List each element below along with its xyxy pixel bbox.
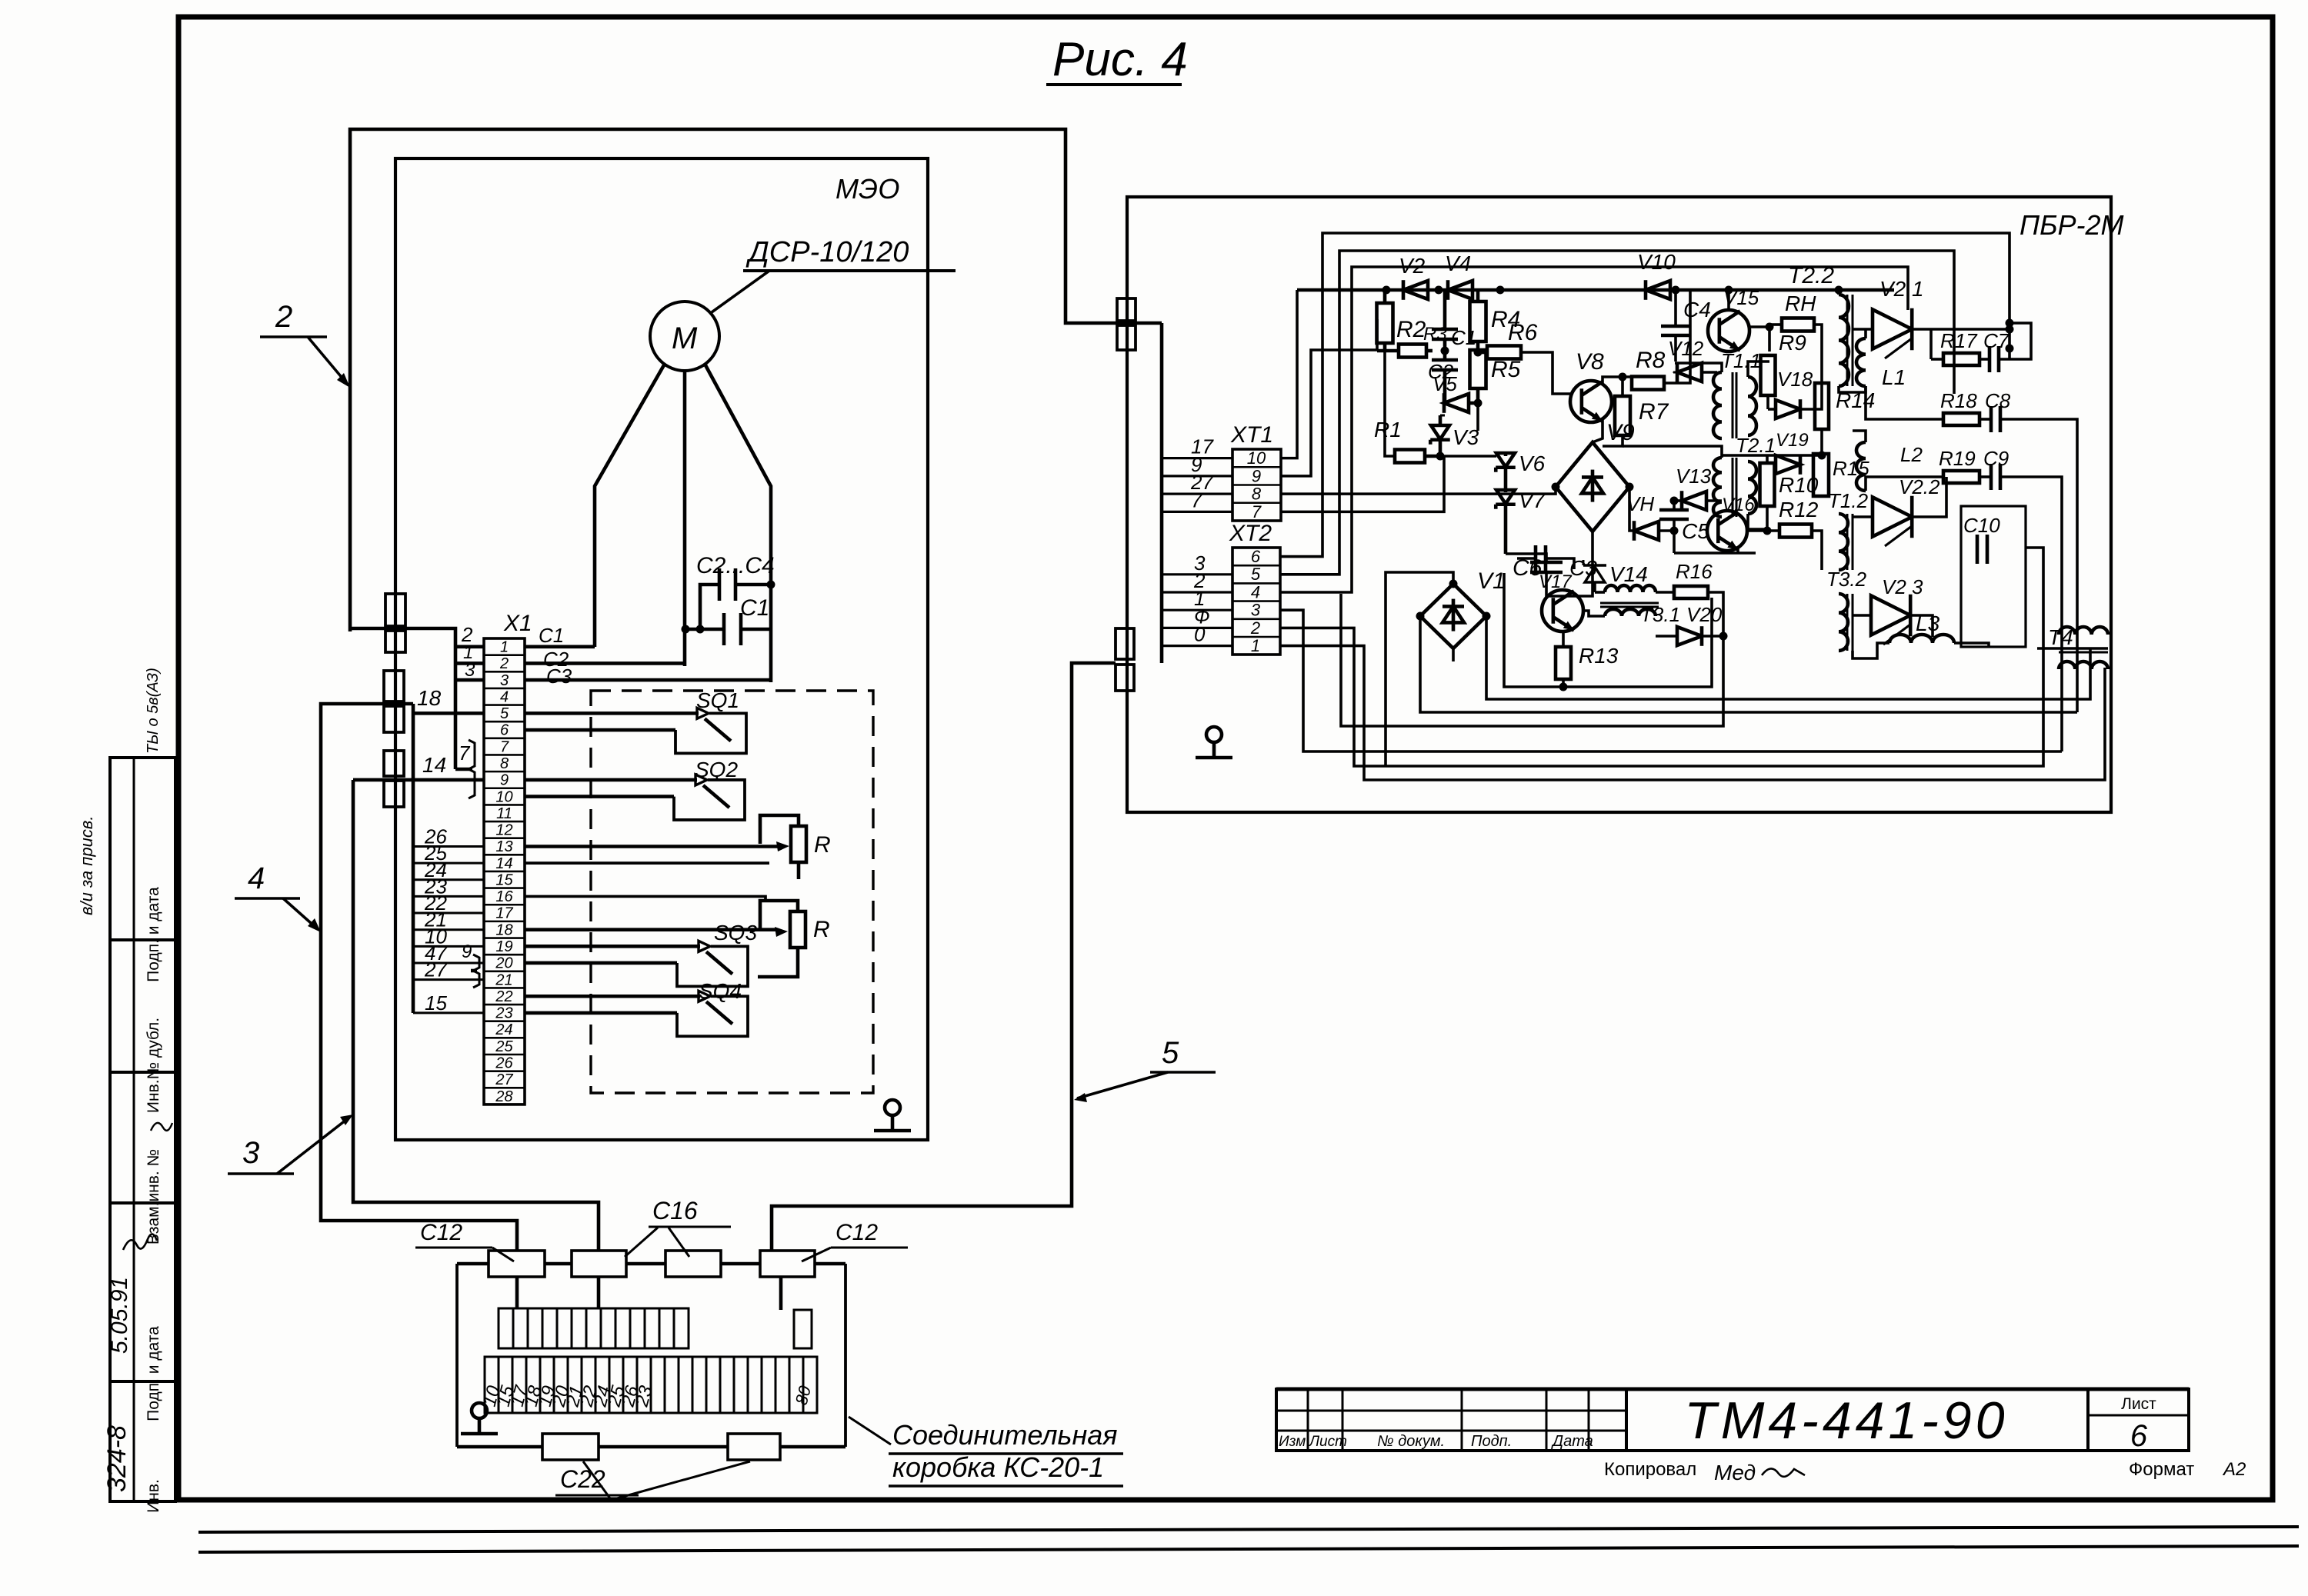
resistor R2 <box>1377 303 1393 343</box>
resistor R3 <box>1399 345 1426 358</box>
svg-text:SQ1: SQ1 <box>696 688 739 712</box>
capacitor C3 <box>1530 561 1563 565</box>
resistor R11 <box>1782 318 1814 332</box>
svg-text:10: 10 <box>495 788 512 805</box>
motor lead wires <box>595 364 665 647</box>
cable 5 wire <box>772 663 1116 1251</box>
MEO box <box>395 158 928 1140</box>
diode V13 <box>1682 491 1706 510</box>
svg-text:V3: V3 <box>1453 425 1479 449</box>
svg-text:в/и за присв.: в/и за присв. <box>77 816 96 915</box>
svg-text:5: 5 <box>500 705 509 722</box>
svg-text:12: 12 <box>495 822 512 839</box>
svg-text:15: 15 <box>425 991 447 1015</box>
svg-text:Инв.№ дубл.: Инв.№ дубл. <box>145 1018 162 1113</box>
resistor R5 <box>1470 350 1486 388</box>
svg-text:R16: R16 <box>1676 560 1713 583</box>
svg-text:5: 5 <box>1251 565 1261 584</box>
svg-text:7: 7 <box>459 741 471 765</box>
diode V19 <box>1776 455 1800 474</box>
capacitor C1 pbr <box>1432 328 1458 332</box>
svg-text:13: 13 <box>495 838 512 855</box>
svg-text:9: 9 <box>500 772 509 789</box>
svg-text:С1: С1 <box>539 624 564 647</box>
svg-text:324-8: 324-8 <box>102 1425 132 1492</box>
svg-text:7: 7 <box>1252 502 1262 521</box>
resistor R6 <box>1487 346 1521 359</box>
X1 left wires 2 1 3 <box>350 628 455 769</box>
svg-text:3: 3 <box>500 672 509 689</box>
X1 ladder bus wires <box>412 704 415 1013</box>
svg-text:24: 24 <box>495 1021 512 1038</box>
svg-text:С5: С5 <box>1682 519 1709 543</box>
stamp signature scribbles <box>123 1234 157 1250</box>
top bus wire <box>1297 288 1894 292</box>
potentiometer R upper <box>791 826 806 862</box>
svg-text:L3: L3 <box>1916 611 1940 635</box>
svg-text:С10: С10 <box>1963 514 2000 537</box>
svg-text:ДСР-10/120: ДСР-10/120 <box>745 236 909 268</box>
svg-text:V8: V8 <box>1576 349 1604 375</box>
svg-text:коробка КС-20-1: коробка КС-20-1 <box>892 1451 1104 1483</box>
diode V10 <box>1646 281 1670 299</box>
diode V2 <box>1403 281 1428 299</box>
group bracket pins 6-8 <box>455 768 472 771</box>
svg-text:R9: R9 <box>1779 331 1806 355</box>
svg-text:Дата: Дата <box>1551 1433 1593 1450</box>
fuse stub wires <box>515 1277 519 1308</box>
svg-text:ТМ4-441-90: ТМ4-441-90 <box>1684 1391 2008 1450</box>
svg-text:8: 8 <box>1252 485 1262 504</box>
svg-text:6: 6 <box>2130 1419 2148 1453</box>
svg-text:Инв.: Инв. <box>145 1479 162 1513</box>
wire loop XT1.8 long to bridge V9 <box>1281 487 1556 494</box>
winding T3.1 upper <box>1605 585 1656 592</box>
zener V6 <box>1496 453 1515 467</box>
junction row mid <box>1722 454 1822 457</box>
svg-text:R: R <box>813 917 830 942</box>
svg-text:R10: R10 <box>1779 473 1819 497</box>
diode V11 <box>1634 521 1659 540</box>
svg-text:С7: С7 <box>1983 329 2010 352</box>
svg-text:L2: L2 <box>1900 443 1923 466</box>
transistor V15 <box>1708 310 1749 352</box>
V16 bottom rail <box>1674 551 1756 555</box>
svg-text:26: 26 <box>495 1055 513 1072</box>
diode V18 <box>1776 400 1800 418</box>
svg-text:M: M <box>672 322 698 355</box>
svg-text:V6: V6 <box>1519 451 1546 475</box>
svg-text:Лист: Лист <box>1308 1434 1347 1450</box>
svg-text:6: 6 <box>1251 547 1261 566</box>
svg-text:3: 3 <box>1251 601 1261 620</box>
terminal strip upper row <box>499 1308 513 1348</box>
svg-text:R5: R5 <box>1491 357 1521 382</box>
terminal strip lower row <box>485 1357 499 1413</box>
cable 5 bus inside PBR <box>1160 323 1164 663</box>
wires around bottom of PBR <box>1486 616 2090 699</box>
svg-text:4: 4 <box>500 688 509 705</box>
svg-text:R2: R2 <box>1396 317 1426 342</box>
choke L1 <box>1856 338 1866 386</box>
svg-text:Т2.2: Т2.2 <box>1788 263 1834 288</box>
svg-text:4: 4 <box>1251 582 1260 601</box>
svg-text:R17: R17 <box>1940 329 1978 352</box>
diode V3 zener <box>1431 425 1449 439</box>
svg-text:21: 21 <box>495 971 512 988</box>
svg-text:R: R <box>814 832 831 858</box>
terminal strip X1 <box>484 638 525 1105</box>
svg-text:R1: R1 <box>1374 418 1402 441</box>
svg-text:R6: R6 <box>1508 320 1538 345</box>
thyristor V2.3 <box>1871 595 1910 635</box>
svg-text:17: 17 <box>495 905 513 922</box>
bridge V9 <box>1556 442 1629 531</box>
svg-text:Т1.2: Т1.2 <box>1828 489 1869 512</box>
svg-text:С8: С8 <box>1985 389 2011 412</box>
svg-text:1: 1 <box>500 639 509 656</box>
connector contacts on MEO wall <box>385 594 405 626</box>
connector contacts on PBR wall upper <box>1117 298 1136 321</box>
svg-text:V16: V16 <box>1722 495 1755 515</box>
svg-text:С12: С12 <box>835 1220 878 1245</box>
svg-text:15: 15 <box>495 871 513 888</box>
resistor R1 <box>1395 450 1425 463</box>
svg-text:5: 5 <box>1162 1036 1179 1070</box>
connector contacts on PBR wall lower <box>1116 628 1134 659</box>
svg-text:Т3.1: Т3.1 <box>1640 603 1680 626</box>
left stamp column <box>110 758 175 1501</box>
svg-text:7: 7 <box>500 738 509 755</box>
svg-text:V12: V12 <box>1668 337 1704 360</box>
board box around pulse circuit <box>1504 573 1712 687</box>
zener V7 <box>1496 490 1515 504</box>
svg-text:19: 19 <box>495 938 512 955</box>
resistor R4 <box>1470 302 1486 342</box>
svg-text:Т3.2: Т3.2 <box>1826 568 1867 591</box>
svg-text:С16: С16 <box>652 1197 698 1224</box>
svg-text:R18: R18 <box>1940 389 1977 412</box>
wire loop XT2.4 over top <box>1280 267 1908 592</box>
svg-text:7: 7 <box>1191 488 1203 511</box>
svg-text:R15: R15 <box>1833 457 1869 480</box>
svg-text:V4: V4 <box>1445 252 1471 275</box>
capacitor C6 <box>1534 545 1538 571</box>
wire loop XT1.10 to top bus <box>1281 290 1297 458</box>
winding T2.1 <box>1713 458 1722 517</box>
svg-text:V20: V20 <box>1686 603 1723 626</box>
svg-text:V19: V19 <box>1776 430 1809 451</box>
svg-text:ПБР-2М: ПБР-2М <box>2019 209 2124 241</box>
svg-text:R8: R8 <box>1636 348 1666 373</box>
diode V4 <box>1448 281 1473 299</box>
wire loop XT1.9 <box>1281 350 1377 476</box>
svg-text:МЭО: МЭО <box>835 173 899 205</box>
MEO ground <box>885 1100 900 1115</box>
svg-text:V7: V7 <box>1519 488 1546 512</box>
wire loop XT1.7 to R1 junction <box>1281 456 1444 511</box>
XT2 left stub wires <box>1162 573 1232 575</box>
svg-text:SQ3: SQ3 <box>714 921 757 945</box>
svg-text:Взам.инв. №: Взам.инв. № <box>145 1149 162 1244</box>
svg-text:Мед: Мед <box>1714 1461 1756 1484</box>
wire loop XT2.1 bottom <box>1280 646 2105 780</box>
svg-text:А2: А2 <box>2222 1459 2246 1480</box>
junction box KS-20-1 <box>457 1262 489 1266</box>
svg-text:V10: V10 <box>1637 250 1676 274</box>
choke L3 <box>1889 635 1954 643</box>
svg-text:V2.1: V2.1 <box>1879 277 1924 301</box>
choke L2 <box>1856 442 1866 491</box>
transistor V8 <box>1570 381 1612 422</box>
svg-text:R12: R12 <box>1779 498 1819 521</box>
svg-text:Х1: Х1 <box>503 611 532 636</box>
junction box ground <box>472 1403 487 1418</box>
sheet bottom edge lines <box>198 1527 2299 1532</box>
svg-text:ТЫ о 5в(АЗ): ТЫ о 5в(АЗ) <box>145 668 162 754</box>
resistor R7 <box>1615 396 1630 435</box>
svg-text:Лист: Лист <box>2121 1395 2156 1413</box>
cable 2 outer loop wire <box>350 129 1162 631</box>
transistor V16 <box>1707 511 1747 551</box>
svg-text:V18: V18 <box>1777 368 1813 391</box>
winding T3.1 lower <box>1605 609 1656 616</box>
capacitor C2 pbr <box>1432 358 1458 362</box>
resistor R12 <box>1779 525 1812 538</box>
svg-text:Подп.: Подп. <box>1471 1433 1512 1450</box>
motor M DSR-10/120 <box>650 302 719 371</box>
document number TM4-441-90 <box>1626 1389 2088 1451</box>
svg-text:14: 14 <box>495 855 512 872</box>
terminal block XT1 <box>1232 449 1281 521</box>
svg-text:2: 2 <box>1250 618 1260 638</box>
svg-text:R13: R13 <box>1579 644 1619 668</box>
svg-text:ХТ2: ХТ2 <box>1229 521 1272 546</box>
wire loop XT2.2 bottom <box>1280 548 2043 766</box>
resistor R15 <box>1813 454 1829 496</box>
XT1 left stub wires <box>1162 457 1232 459</box>
svg-text:11: 11 <box>496 805 512 822</box>
svg-text:V2.2: V2.2 <box>1899 475 1940 498</box>
svg-text:18: 18 <box>417 686 442 710</box>
ladder wires 26 25 24 23 22 21 10 47 27 15 <box>413 845 484 848</box>
svg-text:Копировал: Копировал <box>1604 1459 1696 1480</box>
wire loop XT2.6 over top <box>1280 233 2009 557</box>
svg-text:L1: L1 <box>1882 365 1906 389</box>
cable 4 wire <box>321 704 517 1251</box>
svg-text:27: 27 <box>424 958 448 981</box>
svg-text:Формат: Формат <box>2129 1459 2194 1480</box>
svg-text:С9: С9 <box>1983 447 2009 470</box>
svg-text:С3: С3 <box>546 665 572 688</box>
svg-text:3: 3 <box>242 1136 259 1170</box>
svg-text:28: 28 <box>495 1088 512 1105</box>
resistor R16 <box>1674 586 1708 598</box>
svg-text:RН: RН <box>1785 292 1816 315</box>
svg-text:Подп. и дата: Подп. и дата <box>145 1326 162 1421</box>
resistor R8 <box>1632 377 1664 390</box>
svg-text:14: 14 <box>422 753 446 777</box>
svg-text:16: 16 <box>495 888 513 905</box>
resistor R14 <box>1815 383 1829 429</box>
wire loop XT2.3 bottom <box>1280 610 2062 751</box>
svg-text:23: 23 <box>495 1005 512 1022</box>
svg-text:9: 9 <box>1252 466 1261 485</box>
svg-text:С22: С22 <box>560 1465 605 1493</box>
winding T1.1 <box>1713 372 1722 438</box>
capacitor C4 <box>1661 325 1690 328</box>
svg-text:1: 1 <box>1251 636 1260 655</box>
svg-text:С1: С1 <box>1451 326 1476 349</box>
terminal block XT2 <box>1232 548 1280 655</box>
diode V20 <box>1677 627 1702 645</box>
PBR-2M box <box>1127 197 2111 812</box>
svg-text:V2 3: V2 3 <box>1882 575 1923 598</box>
svg-text:V17: V17 <box>1539 571 1573 592</box>
svg-text:С12: С12 <box>420 1220 462 1245</box>
svg-text:V5: V5 <box>1432 372 1457 395</box>
bridge V1 <box>1420 584 1486 648</box>
svg-text:27: 27 <box>495 1071 513 1088</box>
resistor R10 <box>1760 463 1775 506</box>
svg-text:С4: С4 <box>1683 298 1711 322</box>
svg-text:Т2.1: Т2.1 <box>1736 434 1776 457</box>
svg-text:V13: V13 <box>1676 465 1712 488</box>
svg-text:0: 0 <box>1194 623 1206 646</box>
svg-text:5.05.91: 5.05.91 <box>107 1277 132 1354</box>
resistor R9 <box>1761 355 1776 395</box>
svg-text:Соединительная: Соединительная <box>892 1419 1118 1451</box>
svg-text:R19: R19 <box>1939 447 1976 470</box>
sheet number box <box>2088 1389 2189 1451</box>
svg-text:С1: С1 <box>740 595 769 621</box>
svg-text:10: 10 <box>1247 448 1266 468</box>
svg-text:20: 20 <box>495 955 512 972</box>
svg-text:22: 22 <box>495 988 512 1005</box>
svg-text:Изм: Изм <box>1279 1434 1306 1450</box>
PBR ground <box>1206 727 1222 742</box>
title block <box>1276 1388 2189 1391</box>
svg-text:Подп. и дата: Подп. и дата <box>145 887 162 982</box>
resistor R13 <box>1556 647 1571 679</box>
svg-text:V2: V2 <box>1399 254 1426 278</box>
X1 right wires C1 C2 C3 to motor <box>525 645 595 649</box>
svg-text:2: 2 <box>499 655 509 672</box>
transistor V17 <box>1542 590 1583 631</box>
dashed enclosure box <box>591 691 873 1093</box>
svg-text:2: 2 <box>275 300 292 334</box>
capacitor C5 <box>1659 508 1689 512</box>
svg-text:R7: R7 <box>1639 399 1669 425</box>
svg-text:4: 4 <box>248 861 265 895</box>
svg-text:№ докум.: № докум. <box>1377 1433 1445 1450</box>
svg-text:3: 3 <box>465 660 475 681</box>
svg-text:6: 6 <box>500 722 509 739</box>
svg-text:V14: V14 <box>1609 562 1648 586</box>
svg-text:V1: V1 <box>1477 568 1506 594</box>
svg-text:ХТ1: ХТ1 <box>1230 422 1273 448</box>
svg-text:9: 9 <box>462 941 472 962</box>
zener V14 <box>1585 567 1605 582</box>
group bracket pins 20-21 <box>471 969 477 973</box>
diode V5 <box>1444 394 1469 412</box>
diode V12 <box>1677 363 1702 382</box>
svg-text:25: 25 <box>495 1038 513 1055</box>
thyristor V2.2 <box>1873 497 1912 536</box>
potentiometer R lower <box>790 911 805 948</box>
wire loop XT2.5 over top <box>1280 251 1954 575</box>
svg-text:8: 8 <box>500 755 509 772</box>
svg-text:Рис. 4: Рис. 4 <box>1052 33 1188 86</box>
thyristor V2.1 <box>1873 309 1912 348</box>
cable 3 wire <box>353 780 599 1251</box>
svg-text:18: 18 <box>495 921 512 938</box>
